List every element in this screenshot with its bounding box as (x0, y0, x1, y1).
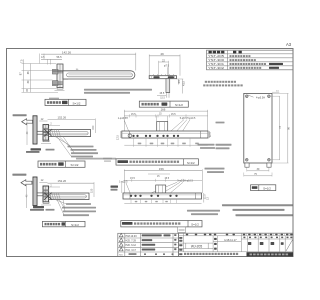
revision row 4 triangle mark (119, 233, 123, 236)
approval stamp 4 (281, 242, 284, 245)
viewB bracket plate (43, 186, 49, 202)
svg-text:15.5: 15.5 (164, 177, 169, 180)
svg-text:5-φ5.5H φ10.5: 5-φ5.5H φ10.5 (180, 117, 196, 120)
parts list table (207, 50, 294, 70)
screw usage note line3 (236, 214, 294, 216)
viewA door frame profile (33, 116, 37, 144)
view5 top right note (205, 168, 225, 170)
viewB arm (49, 193, 89, 200)
svg-text:41.5: 41.5 (183, 80, 186, 85)
svg-text:49: 49 (160, 52, 164, 56)
svg-text:H18.11.17: H18.11.17 (224, 238, 237, 242)
view4 sub dimension line (124, 115, 207, 117)
viewB left dim line (26, 184, 28, 208)
view2 left bolt section (153, 76, 159, 78)
panel material note (205, 81, 207, 83)
revision row 2 triangle mark (119, 243, 123, 246)
viewA leader lines to fastener notes (55, 137, 70, 146)
view5 label box - back view 25mm S=1/2 (121, 221, 202, 227)
viewB mount position note (12, 174, 26, 176)
view1 label box - front view S=1/2 (45, 99, 86, 105)
view5 washer note (187, 210, 220, 212)
svg-text:150: 150 (91, 188, 94, 193)
viewB part3 label (33, 206, 44, 208)
view2 right dimension 4.5 (177, 79, 179, 85)
view1 second dim line (41, 58, 62, 60)
project name text bottom left (184, 253, 186, 255)
panel corner hole bottom-left (246, 159, 249, 162)
svg-text:56.5: 56.5 (56, 55, 62, 59)
viewA bracket plate (43, 125, 49, 141)
view1 tiny note above label box (49, 98, 59, 100)
view5 bar holes (130, 195, 132, 197)
viewB direction arrow (21, 180, 32, 186)
svg-text:1-φ13.5: 1-φ13.5 (119, 180, 128, 183)
revision row 2 description (142, 244, 156, 246)
view1 left dimension chain lines (23, 59, 25, 92)
view2 cross bar (149, 76, 176, 79)
svg-text:12.5: 12.5 (209, 132, 212, 137)
approval stamp 2 (260, 242, 264, 245)
view5 right rotated dims (203, 193, 205, 203)
svg-text:S=1/2: S=1/2 (175, 103, 183, 107)
svg-text:S=1/2: S=1/2 (71, 223, 79, 227)
title block mini row dots (243, 237, 245, 239)
svg-text:15.5: 15.5 (131, 113, 136, 116)
view4 washer note (198, 144, 215, 146)
title block left column labels (179, 237, 182, 239)
panel corner hole top-left (246, 95, 249, 98)
view2 hatch ticks above bar (153, 74, 155, 76)
view5 stem cross-section (156, 185, 166, 193)
svg-text:YST-302: YST-302 (208, 66, 225, 70)
svg-text:4.5: 4.5 (178, 79, 181, 83)
parts table header (209, 51, 212, 54)
view1 upper bolt head stack (53, 69, 59, 74)
view2 stem (166, 79, 170, 93)
view4 label box - back view 50mm S=1/2 (116, 159, 198, 165)
viewA part2 label (31, 148, 42, 150)
viewB label box - side view S=1/2 (42, 221, 85, 226)
svg-text:15.5: 15.5 (160, 97, 165, 99)
view1 plate foot (57, 88, 63, 90)
view4 large hole (128, 134, 131, 137)
panel corner hole bottom-right (268, 159, 271, 162)
viewA label box - side view S=1/2 (38, 161, 85, 167)
sheet border frame (7, 49, 294, 257)
panel label box S=1/2 (251, 185, 276, 191)
view1 note text lines (84, 89, 152, 91)
view5 part1 label (111, 186, 119, 188)
title block header strip marks (186, 234, 188, 235)
svg-text:156: 156 (159, 167, 164, 171)
approval stamp 1 (248, 242, 251, 245)
title block approval cell dividers (246, 236, 248, 252)
revision row 4 description (142, 234, 162, 236)
screw usage note line2 (233, 209, 285, 211)
svg-text:150: 150 (92, 125, 95, 130)
viewA tiny note above label box (76, 158, 116, 160)
small stamp box below view5 label (178, 227, 186, 232)
viewB clamp bolts bridging gap (37, 192, 43, 194)
company name dark band (247, 252, 294, 256)
svg-text:A3: A3 (286, 42, 292, 47)
viewB clamp bolt cluster (43, 189, 49, 191)
svg-text:S=1/2: S=1/2 (71, 163, 79, 167)
title block horizontal lines (179, 235, 294, 237)
drawing number cell inner lines (185, 243, 187, 249)
viewA left dim line (26, 122, 28, 146)
svg-text:1-φ13.5H: 1-φ13.5H (118, 117, 128, 120)
svg-text:S=1/2: S=1/2 (263, 186, 271, 190)
title block outline (179, 233, 294, 256)
svg-text:NO.: NO. (119, 254, 123, 256)
svg-text:H25. 7.29: H25. 7.29 (126, 240, 137, 243)
panel right dim 73 (278, 96, 280, 160)
view5 left ext line (121, 181, 123, 193)
svg-text:15.5: 15.5 (159, 92, 164, 95)
svg-text:15.5: 15.5 (130, 177, 135, 180)
view5 back bar (123, 193, 202, 199)
viewA clamp bolts bridging gap (37, 130, 43, 132)
view1 arm slot (67, 73, 133, 77)
viewA fastener note lines (68, 146, 94, 148)
viewA direction arrow (22, 119, 33, 125)
svg-text:152.26: 152.26 (58, 115, 67, 119)
view1 ext lines near 4.5 (39, 54, 41, 64)
view1 vertical mount plate (57, 64, 63, 88)
revision row 1 triangle mark (119, 248, 123, 251)
empty signature cell diagonal (286, 240, 293, 251)
svg-text:7.5: 7.5 (20, 59, 23, 63)
svg-text:S=1/2: S=1/2 (73, 101, 81, 105)
small note left of view4 label (103, 158, 112, 160)
view2 right bolt section (168, 76, 174, 78)
panel corner hole top-right (268, 95, 271, 98)
viewA mount position note (13, 114, 27, 116)
svg-text:4.5: 4.5 (41, 55, 45, 59)
viewB leader lines to fastener notes (55, 200, 66, 204)
approval stamp 3 (271, 242, 275, 245)
panel right dim 96 (287, 93, 289, 163)
svg-text:S=1/2: S=1/2 (187, 161, 195, 165)
svg-text:S=1/2: S=1/2 (191, 223, 199, 227)
viewB plate foot (43, 202, 49, 204)
title block vertical lines (183, 233, 185, 252)
viewB fastener note lines (66, 203, 91, 205)
svg-text:12.5: 12.5 (116, 134, 119, 139)
view4 back bar (122, 131, 208, 138)
view4 bar holes (132, 135, 134, 137)
svg-text:152.26: 152.26 (58, 179, 67, 183)
panel bottom notch right (267, 163, 271, 167)
panel bottom notch left (245, 163, 249, 167)
view2 right dimension 41.5 (182, 79, 184, 94)
view2 stem lower extension (166, 93, 168, 98)
viewA arm hatch (50, 130, 52, 137)
revision narrow column marks (174, 234, 176, 236)
screw usage note line1 (222, 204, 293, 206)
svg-text:4-φ5.5H: 4-φ5.5H (256, 96, 265, 99)
view5 sub dimension line (148, 173, 170, 175)
revision row 1 description (142, 249, 156, 251)
svg-text:WJ-205: WJ-205 (191, 244, 203, 248)
view4 stem ext lines (156, 116, 158, 122)
svg-text:166: 166 (161, 107, 166, 111)
view4 lower chain dim (124, 144, 207, 146)
svg-text:15.5: 15.5 (171, 113, 176, 116)
panel left notes (216, 122, 225, 124)
viewA plate foot (43, 140, 49, 142)
view1 clamp block hatch (63, 71, 68, 79)
svg-text:H16. 3.17: H16. 3.17 (126, 249, 137, 252)
svg-text:5-φ5.5H φ10.5: 5-φ5.5H φ10.5 (177, 180, 193, 183)
view5 chain dim numbers (135, 201, 138, 202)
viewB arm hatch (50, 193, 52, 200)
view2 label box - top view S=1/2 (139, 101, 188, 107)
view4 left rotated dim 12.5 (119, 131, 121, 138)
revision table (118, 233, 179, 256)
viewA arm (49, 130, 91, 137)
view1 arm with rounded tip (63, 71, 135, 79)
svg-text:H18.10.03: H18.10.03 (126, 235, 138, 238)
viewA clamp bolt cluster (43, 128, 49, 130)
svg-text:H20. 6.12: H20. 6.12 (126, 244, 137, 247)
view4 stem cross-section (157, 122, 168, 132)
view4 right rotated dim 12.5 (209, 131, 211, 138)
svg-text:φ7.5: φ7.5 (164, 64, 170, 67)
view5 hole ext lines below (130, 199, 132, 203)
viewB door frame profile (33, 177, 37, 206)
revision row 3 triangle mark (119, 238, 123, 241)
view1 lower bolt head stack (53, 81, 59, 86)
title block mid column labels (214, 238, 217, 240)
panel plate outline (244, 93, 272, 163)
revision row 3 description (142, 239, 153, 241)
title block header strip dividers (246, 233, 248, 236)
